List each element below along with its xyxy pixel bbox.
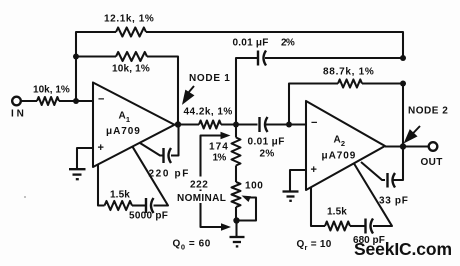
capacitor 0.01uF 2% coupling plates <box>260 117 268 132</box>
svg-text:1%: 1% <box>213 153 227 164</box>
svg-text:2%: 2% <box>281 38 295 49</box>
svg-text:0.01 μF: 0.01 μF <box>233 38 269 49</box>
resistor R 44.2k 1% <box>199 121 221 129</box>
terminal OUT circle <box>429 142 438 151</box>
svg-text:−: − <box>98 94 105 106</box>
svg-text:1.5k: 1.5k <box>327 207 347 218</box>
arrow bracket bottom <box>221 223 231 231</box>
svg-text:μA709: μA709 <box>106 126 140 137</box>
arrow node 1 pointer <box>184 86 195 103</box>
wire 10k feedback row <box>76 55 116 57</box>
svg-text:NODE 2: NODE 2 <box>408 106 448 117</box>
terminal IN circle <box>12 97 21 106</box>
potentiometer R 100 vertical <box>232 182 241 207</box>
wire A1 plus input to ground <box>77 148 93 169</box>
capacitor 5000pF plates <box>146 198 154 213</box>
wire pot wiper return <box>237 198 257 221</box>
capacitor 220pF plates <box>164 148 172 163</box>
resistor R 10k 1% feedback <box>116 52 147 61</box>
wire A2 output to OUT <box>385 145 429 147</box>
wire 1.5k to 5000pF <box>132 204 146 206</box>
arrow node 2 pointer <box>406 126 421 142</box>
svg-text:12.1k, 1%: 12.1k, 1% <box>104 14 154 25</box>
wire input from IN terminal <box>21 100 38 102</box>
wire A1 220pF comp diagonal <box>140 143 164 156</box>
op-amp U2 A2 uA709 triangle <box>306 101 385 190</box>
svg-text:44.2k, 1%: 44.2k, 1% <box>184 107 233 118</box>
wire A1 comp network left vertical <box>98 165 105 206</box>
wire 1.5k to 680pF <box>350 225 366 227</box>
resistor R 10k 1% input <box>37 97 59 105</box>
svg-text:33 pF: 33 pF <box>379 196 408 207</box>
wire A1 output to 44.2k <box>175 123 200 125</box>
svg-text:222: 222 <box>190 180 208 191</box>
wire ground node stem <box>235 221 237 237</box>
resistor R 88.7k 1% <box>338 80 362 88</box>
svg-text:+: + <box>311 164 318 176</box>
resistor R 12.1k 1% <box>116 28 146 37</box>
wire 5000pF to A1 comp pin diagonal <box>133 147 169 206</box>
wire 220pF to A1 output vertical <box>171 125 179 156</box>
svg-text:+: + <box>98 142 105 154</box>
white masks under labels crossing lines <box>188 177 209 190</box>
svg-text:OUT: OUT <box>421 157 443 168</box>
wire 680pF to A2 comp pin diagonal <box>354 164 392 227</box>
ground symbol G2 (A2 + input) <box>283 192 299 201</box>
svg-text:IN: IN <box>11 109 24 120</box>
arrow bracket top <box>221 132 231 140</box>
wire A2 plus input to ground <box>290 170 306 191</box>
svg-text:1.5k: 1.5k <box>110 190 130 201</box>
svg-text:0.01 μF: 0.01 μF <box>248 137 285 148</box>
svg-text:10k, 1%: 10k, 1% <box>112 64 150 75</box>
svg-text:μA709: μA709 <box>322 151 356 162</box>
wire 88.7k feedback row <box>289 84 338 125</box>
capacitor 680pF plates <box>366 219 374 234</box>
resistor R 174 1% vertical <box>235 125 237 138</box>
ground symbol G3 (below pot) <box>230 237 245 246</box>
svg-text:174: 174 <box>209 142 228 153</box>
svg-text:100: 100 <box>245 181 263 192</box>
wire 174 to pot <box>235 166 237 183</box>
capacitor 33pF plates <box>388 173 396 188</box>
ground symbol G1 (A1 + input) <box>69 169 86 179</box>
wire node A to A2 coupling cap <box>221 123 258 125</box>
svg-text:SeekIC.com: SeekIC.com <box>354 239 452 259</box>
bracket 222 nominal <box>201 136 222 228</box>
svg-text:NOMINAL: NOMINAL <box>177 193 226 204</box>
svg-text:88.7k, 1%: 88.7k, 1% <box>323 67 374 78</box>
svg-text:2%: 2% <box>260 149 275 160</box>
capacitor 0.01uF 2% top plates <box>258 51 266 66</box>
arrow pot wiper <box>242 196 252 203</box>
scan speck <box>24 196 26 198</box>
svg-text:NODE 1: NODE 1 <box>189 73 230 84</box>
svg-text:−: − <box>311 117 318 129</box>
op-amp U1 A1 uA709 triangle <box>93 83 175 168</box>
resistor R 1.5k A1 comp <box>105 201 133 210</box>
wire pot bottom to ground node <box>235 207 237 221</box>
wire A2 comp network left vertical <box>311 188 325 227</box>
svg-text:10k, 1%: 10k, 1% <box>33 85 70 96</box>
resistor R 1.5k A2 comp <box>325 222 350 231</box>
svg-text:5000 pF: 5000 pF <box>129 211 168 222</box>
wire top feedback from A1 input vertical to node 2 vertical <box>76 32 116 101</box>
wire 33pF to A2 comp pin diagonal <box>361 162 385 180</box>
wire vertical from node A up to top 0.01uF row <box>236 58 258 125</box>
wire node 2 vertical down to 33pF <box>402 84 404 147</box>
